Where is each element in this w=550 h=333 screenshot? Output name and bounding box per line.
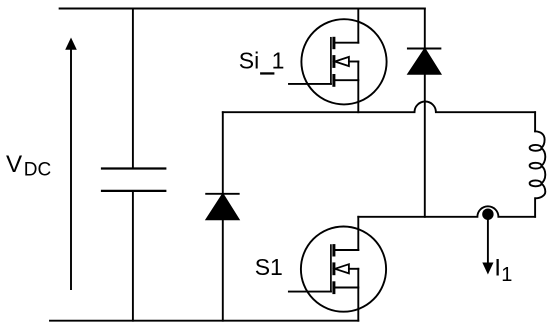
wire capacitor branch lower	[132, 191, 134, 321]
mosfet circle	[301, 19, 386, 104]
label Si_1	[239, 48, 285, 75]
drain lead	[335, 42, 358, 44]
svg-text:I: I	[494, 254, 501, 281]
body lead	[349, 61, 358, 63]
source contact bar	[332, 283, 335, 293]
wire diode bottom	[222, 219, 224, 320]
wire diode top	[424, 9, 426, 49]
capacitor C1 top plate	[102, 167, 165, 169]
diode D2 (bottom freewheel)	[206, 112, 239, 321]
wire right branch upper	[534, 112, 536, 131]
body lead	[349, 268, 358, 270]
label I1	[494, 254, 512, 286]
source lead	[335, 287, 358, 289]
voltage arrow VDC	[66, 39, 76, 289]
cathode bar	[408, 48, 441, 50]
diode triangle	[408, 49, 440, 74]
label VDC	[6, 151, 51, 181]
source vertical to bottom rail	[357, 269, 359, 321]
capacitor C1 bottom plate	[102, 190, 165, 192]
source vertical to mid node	[357, 62, 359, 113]
wire diode top	[222, 112, 224, 194]
drain lead	[335, 249, 358, 251]
mosfet S1	[289, 217, 386, 321]
inductor L1	[530, 131, 546, 198]
svg-text:V: V	[6, 151, 23, 178]
node dot	[482, 209, 493, 220]
wire output line with hop at node	[358, 206, 535, 217]
wire right branch lower	[534, 198, 536, 217]
body arrow	[335, 57, 349, 66]
diode D1 (top freewheel)	[408, 9, 441, 217]
diode triangle	[207, 194, 239, 219]
svg-text:1: 1	[501, 264, 512, 286]
wire bottom rail	[50, 320, 358, 322]
wire capacitor branch upper	[132, 9, 134, 169]
drain contact bar	[332, 38, 335, 47]
current arrow I1	[483, 216, 493, 273]
gate lead	[289, 83, 331, 85]
body contact bar	[332, 264, 335, 274]
body contact bar	[332, 57, 335, 67]
source lead	[335, 79, 358, 81]
mosfet circle	[301, 227, 386, 312]
cathode bar	[206, 193, 239, 195]
drain vertical to top rail	[357, 9, 359, 43]
body arrow	[335, 264, 349, 273]
drain vertical to output line	[357, 217, 359, 250]
wire top rail	[60, 8, 425, 10]
svg-text:S1: S1	[255, 254, 283, 280]
wire diode bottom	[424, 74, 426, 217]
wire mid node line with hop over diode	[223, 101, 535, 112]
gate lead	[289, 291, 331, 293]
mosfet Si_1	[289, 9, 387, 113]
gate vertical	[330, 38, 332, 84]
svg-text:1: 1	[272, 48, 285, 74]
drain contact bar	[332, 246, 335, 255]
source contact bar	[332, 76, 335, 86]
svg-text:Si: Si	[239, 48, 259, 74]
gate vertical	[330, 245, 332, 292]
svg-text:DC: DC	[24, 160, 51, 181]
